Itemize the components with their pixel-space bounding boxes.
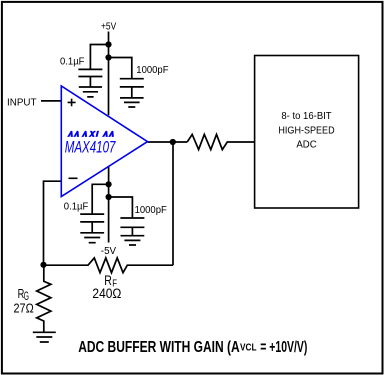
MAXIM logo <box>67 131 115 137</box>
junction dot output node <box>170 139 176 145</box>
ground under C2 <box>120 98 144 107</box>
svg-text:= +10V/V): = +10V/V) <box>260 339 307 356</box>
capacitor C1 0.1uF <box>78 69 102 87</box>
svg-text:27Ω: 27Ω <box>14 301 34 315</box>
caption ADC BUFFER WITH GAIN <box>78 339 307 356</box>
svg-text:INPUT: INPUT <box>7 97 37 108</box>
svg-text:+5V: +5V <box>101 21 116 32</box>
svg-text:240Ω: 240Ω <box>92 286 121 301</box>
op-amp minus input marker <box>69 177 78 179</box>
junction dot supply top 2 <box>105 54 111 60</box>
ground under C1 <box>79 87 102 97</box>
svg-text:0.1µF: 0.1µF <box>60 56 85 67</box>
svg-text:ADC BUFFER WITH GAIN (A: ADC BUFFER WITH GAIN (A <box>78 339 240 356</box>
svg-text:0.1µF: 0.1µF <box>64 201 89 212</box>
op-amp plus input marker <box>68 99 76 107</box>
wire to C1 <box>90 45 108 70</box>
svg-text:8- to 16-BIT: 8- to 16-BIT <box>281 111 331 122</box>
capacitor C3 0.1uF <box>80 214 104 233</box>
svg-text:HIGH-SPEED: HIGH-SPEED <box>278 125 334 136</box>
ground under C4 <box>121 236 145 245</box>
svg-text:1000pF: 1000pF <box>136 65 168 76</box>
capacitor C4 1000pF <box>120 218 144 236</box>
ADC block text <box>278 111 334 151</box>
junction dot supply bottom 1 <box>106 181 112 187</box>
junction dot supply bottom 2 <box>106 194 112 200</box>
resistor R1 output series <box>187 134 254 149</box>
resistor RG <box>37 265 51 333</box>
ADC block <box>255 56 359 209</box>
capacitor C2 1000pF <box>120 79 144 98</box>
resistor RF <box>44 258 174 273</box>
wire to C3 <box>92 184 108 214</box>
svg-text:VCL: VCL <box>240 341 257 353</box>
wire to C4 <box>109 197 133 218</box>
wire op-amp output <box>148 141 188 143</box>
svg-text:ADC: ADC <box>296 140 316 151</box>
junction dot supply top 1 <box>105 41 111 47</box>
op-amp U1 MAX4107 <box>61 86 147 197</box>
svg-text:MAX4107: MAX4107 <box>65 138 116 157</box>
wire output node vertical <box>172 142 174 265</box>
-5V supply rail wire <box>108 166 110 242</box>
wire INPUT to noninverting input <box>41 100 62 102</box>
+5V supply rail wire <box>108 32 110 116</box>
ground under C3 <box>80 233 104 243</box>
junction dot inverting node <box>40 262 46 268</box>
svg-text:-5V: -5V <box>101 246 117 257</box>
ground under RG <box>33 332 56 342</box>
wire inverting input feedback <box>44 181 62 265</box>
svg-text:1000pF: 1000pF <box>135 205 167 216</box>
wire to C2 <box>109 58 132 79</box>
